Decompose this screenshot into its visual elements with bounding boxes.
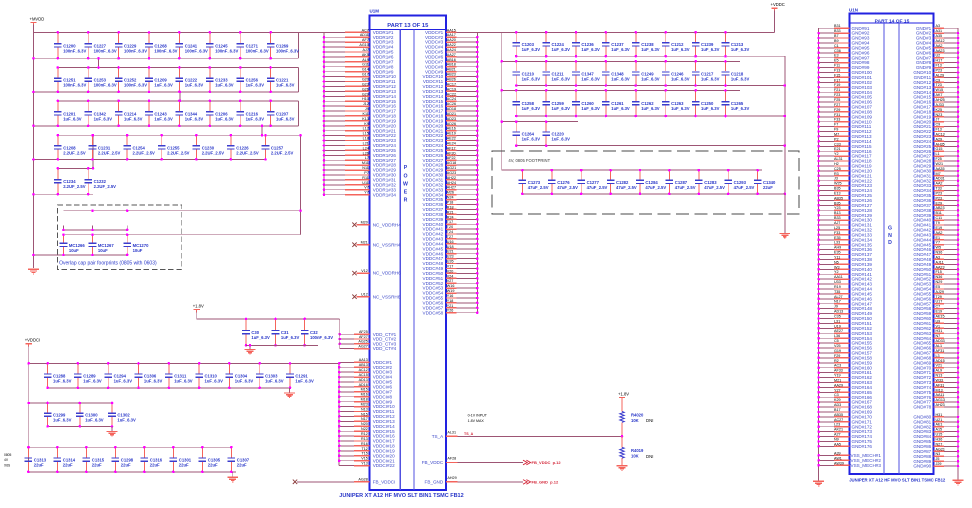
svg-text:U12: U12: [361, 293, 368, 297]
svg-text:C35: C35: [834, 315, 841, 319]
svg-text:U1N: U1N: [849, 8, 858, 13]
svg-text:0-1V INPUT: 0-1V INPUT: [468, 414, 488, 418]
svg-text:N3: N3: [936, 452, 941, 456]
svg-text:N17: N17: [361, 417, 368, 421]
svg-text:L12: L12: [363, 127, 369, 131]
svg-text:F33: F33: [834, 118, 840, 122]
svg-text:1uF_6.3V: 1uF_6.3V: [671, 47, 690, 52]
svg-text:AH9: AH9: [834, 246, 841, 250]
svg-text:AJ11: AJ11: [936, 260, 944, 264]
svg-text:2.2UF_2.5V: 2.2UF_2.5V: [167, 150, 190, 155]
svg-text:G17: G17: [362, 73, 369, 77]
svg-text:Y19: Y19: [834, 374, 841, 378]
svg-text:22uF: 22uF: [237, 463, 247, 468]
svg-text:1uF_6.3V: 1uF_6.3V: [215, 116, 234, 121]
svg-text:47uF_2.5V: 47uF_2.5V: [734, 185, 755, 190]
svg-text:2.2UF_2.5V: 2.2UF_2.5V: [202, 150, 225, 155]
svg-text:FB_VDDCI: FB_VDDCI: [373, 479, 396, 484]
svg-text:1uF_6.3V: 1uF_6.3V: [641, 47, 660, 52]
svg-text:AH27: AH27: [447, 186, 456, 190]
svg-text:100nF_6.3V: 100nF_6.3V: [124, 48, 147, 53]
svg-text:R4020: R4020: [631, 412, 644, 417]
svg-text:P2: P2: [834, 137, 839, 141]
svg-text:T12: T12: [361, 447, 367, 451]
svg-text:E29: E29: [936, 201, 943, 205]
svg-text:AC17: AC17: [447, 82, 456, 86]
svg-text:F23: F23: [834, 93, 840, 97]
svg-text:N11: N11: [362, 166, 369, 170]
svg-text:K13: K13: [362, 117, 369, 121]
svg-text:C36: C36: [834, 49, 841, 53]
svg-text:47uF_2.5V: 47uF_2.5V: [528, 185, 549, 190]
svg-text:2.2UF_2.5V: 2.2UF_2.5V: [94, 184, 117, 189]
svg-text:+1.8V: +1.8V: [618, 391, 629, 396]
svg-text:A29: A29: [936, 137, 943, 141]
svg-text:D: D: [888, 240, 892, 246]
svg-text:AJ7: AJ7: [362, 48, 368, 52]
svg-text:U19: U19: [834, 324, 841, 328]
svg-text:AA27: AA27: [447, 53, 456, 57]
svg-text:AG25: AG25: [358, 340, 367, 344]
svg-text:R3: R3: [834, 172, 839, 176]
svg-text:AG23: AG23: [447, 171, 456, 175]
svg-text:AB26: AB26: [447, 78, 456, 82]
svg-text:C7: C7: [936, 305, 941, 309]
svg-text:AE15: AE15: [936, 315, 945, 319]
svg-text:+VDDC: +VDDC: [771, 2, 785, 7]
svg-text:N22: N22: [361, 427, 368, 431]
svg-text:N15: N15: [361, 412, 368, 416]
svg-text:N7: N7: [936, 334, 941, 338]
svg-text:FB_GND p.12: FB_GND p.12: [532, 480, 559, 485]
svg-text:U16: U16: [447, 240, 454, 244]
svg-text:B35: B35: [834, 201, 841, 205]
svg-text:L33: L33: [834, 241, 840, 245]
svg-text:J7: J7: [936, 118, 940, 122]
svg-text:V20: V20: [447, 269, 454, 273]
svg-text:Y11: Y11: [834, 255, 840, 259]
svg-text:R18: R18: [447, 205, 454, 209]
svg-text:AA24: AA24: [447, 48, 456, 52]
svg-text:F29: F29: [834, 108, 840, 112]
svg-text:47uF_2.5V: 47uF_2.5V: [557, 185, 578, 190]
svg-text:P: P: [404, 165, 408, 171]
svg-text:U21: U21: [447, 250, 454, 254]
svg-text:T15: T15: [361, 452, 367, 456]
svg-text:F21: F21: [834, 88, 840, 92]
svg-text:T24: T24: [447, 230, 453, 234]
svg-text:G11: G11: [362, 63, 369, 67]
svg-text:10uF: 10uF: [133, 248, 143, 253]
svg-text:AG13: AG13: [936, 398, 945, 402]
svg-text:22uF: 22uF: [179, 463, 189, 468]
svg-text:NC_VSSRH4: NC_VSSRH4: [373, 242, 401, 247]
svg-text:VDDCI#22: VDDCI#22: [373, 463, 395, 468]
svg-text:AC7: AC7: [362, 28, 369, 32]
svg-text:W3: W3: [834, 265, 840, 269]
svg-text:1uF_6.3V: 1uF_6.3V: [85, 418, 104, 423]
svg-text:AW39: AW39: [834, 461, 844, 465]
svg-text:B35: B35: [834, 187, 841, 191]
svg-text:P23: P23: [936, 196, 943, 200]
svg-text:AC12: AC12: [359, 368, 368, 372]
svg-text:B31: B31: [834, 24, 841, 28]
svg-text:1uF_6.3V: 1uF_6.3V: [671, 106, 690, 111]
svg-text:K9: K9: [364, 122, 369, 126]
svg-text:100nF_6.3V: 100nF_6.3V: [94, 83, 117, 88]
svg-text:A3: A3: [936, 255, 941, 259]
svg-text:VSS_MECH#3: VSS_MECH#3: [851, 463, 882, 468]
svg-text:1uF_6.3V: 1uF_6.3V: [701, 106, 720, 111]
svg-text:AB23: AB23: [936, 206, 945, 210]
svg-text:M26: M26: [447, 191, 454, 195]
svg-text:B13: B13: [834, 211, 841, 215]
svg-text:C11: C11: [936, 216, 943, 220]
svg-text:U21: U21: [936, 418, 943, 422]
svg-text:1uF_6.3V: 1uF_6.3V: [581, 47, 600, 52]
svg-text:AK5: AK5: [362, 53, 369, 57]
svg-text:T20: T20: [447, 225, 453, 229]
svg-text:2.2UF_2.5V: 2.2UF_2.5V: [63, 184, 86, 189]
svg-text:AB18: AB18: [447, 63, 456, 67]
svg-text:T23: T23: [936, 83, 942, 87]
svg-text:AA17: AA17: [447, 33, 456, 37]
svg-text:AA5: AA5: [834, 442, 841, 446]
svg-text:L26: L26: [363, 151, 369, 155]
svg-text:Y23: Y23: [834, 206, 841, 210]
svg-text:R2: R2: [834, 359, 839, 363]
svg-text:AC13: AC13: [936, 132, 945, 136]
svg-text:1uF_6.3V: 1uF_6.3V: [581, 106, 600, 111]
svg-text:1uF_6.3V: 1uF_6.3V: [522, 106, 541, 111]
svg-text:T33: T33: [936, 187, 942, 191]
svg-text:22uF: 22uF: [208, 463, 218, 468]
svg-text:Y26: Y26: [447, 309, 454, 313]
svg-text:O: O: [403, 173, 407, 179]
svg-text:R12: R12: [361, 432, 368, 436]
svg-text:10uF: 10uF: [69, 248, 79, 253]
svg-text:1uF_6.3V: 1uF_6.3V: [185, 116, 204, 121]
svg-text:T17: T17: [447, 220, 453, 224]
svg-text:1uF_6.3V: 1uF_6.3V: [611, 77, 630, 82]
svg-text:C33: C33: [834, 142, 841, 146]
svg-text:1uF_6.3V: 1uF_6.3V: [265, 379, 284, 384]
svg-text:AD11: AD11: [360, 33, 369, 37]
svg-text:AF31: AF31: [936, 383, 945, 387]
svg-text:V15: V15: [361, 457, 368, 461]
svg-text:1uF_6.3V: 1uF_6.3V: [522, 47, 541, 52]
svg-text:L7: L7: [365, 156, 369, 160]
svg-text:AA13: AA13: [359, 358, 368, 362]
svg-text:100nF_6.3V: 100nF_6.3V: [63, 83, 86, 88]
svg-text:U17: U17: [936, 300, 943, 304]
svg-text:4V, 0805 FOOTPRINT: 4V, 0805 FOOTPRINT: [508, 158, 550, 163]
svg-text:R11: R11: [362, 176, 369, 180]
svg-text:Y27: Y27: [834, 388, 841, 392]
svg-text:1uF_6.3V: 1uF_6.3V: [701, 47, 720, 52]
svg-text:U15: U15: [936, 433, 943, 437]
svg-text:DNI: DNI: [646, 418, 653, 423]
svg-text:H31: H31: [936, 413, 943, 417]
svg-text:AC26: AC26: [447, 102, 456, 106]
svg-text:AA2: AA2: [936, 231, 943, 235]
svg-text:V17: V17: [447, 265, 454, 269]
svg-text:M7: M7: [936, 172, 941, 176]
svg-text:0805: 0805: [4, 453, 12, 457]
svg-text:47uF_2.5V: 47uF_2.5V: [616, 185, 637, 190]
svg-text:Y7: Y7: [364, 191, 369, 195]
svg-text:AF20: AF20: [447, 151, 456, 155]
svg-text:W16: W16: [447, 284, 455, 288]
svg-text:+MVDD: +MVDD: [30, 16, 45, 21]
svg-text:JUNIPER XT A12 HF MVO SLT BIN1: JUNIPER XT A12 HF MVO SLT BIN1 TSMC FB12: [339, 493, 463, 499]
svg-text:F19: F19: [834, 83, 840, 87]
svg-text:10K: 10K: [631, 454, 639, 459]
svg-text:AH29: AH29: [447, 476, 456, 480]
svg-text:TS_A: TS_A: [432, 434, 444, 439]
svg-text:Y2: Y2: [834, 152, 839, 156]
svg-text:AG10: AG10: [359, 43, 368, 47]
svg-text:U1M: U1M: [370, 9, 380, 14]
svg-text:U9: U9: [936, 319, 941, 323]
svg-text:N36: N36: [936, 275, 943, 279]
svg-text:W15: W15: [936, 88, 944, 92]
svg-text:1uF_6.3V: 1uF_6.3V: [522, 137, 541, 142]
svg-text:M18: M18: [361, 398, 368, 402]
svg-text:1uF_6.3V: 1uF_6.3V: [154, 83, 173, 88]
svg-text:AE24: AE24: [447, 142, 456, 146]
svg-text:N27: N27: [936, 442, 943, 446]
svg-text:AL29: AL29: [936, 73, 945, 77]
svg-text:V24: V24: [447, 274, 454, 278]
svg-text:AG21: AG21: [447, 166, 456, 170]
svg-text:1uF_6.3V: 1uF_6.3V: [641, 106, 660, 111]
svg-text:B7: B7: [834, 34, 839, 38]
svg-text:1uF_6.3V: 1uF_6.3V: [611, 47, 630, 52]
svg-text:H36: H36: [936, 438, 943, 442]
svg-text:E21: E21: [834, 147, 841, 151]
svg-text:1uF_6.3V: 1uF_6.3V: [251, 335, 270, 340]
svg-text:10K: 10K: [631, 418, 639, 423]
svg-text:F13: F13: [834, 69, 840, 73]
svg-text:V21: V21: [936, 364, 943, 368]
svg-text:A15: A15: [936, 428, 943, 432]
svg-text:AF27: AF27: [359, 335, 368, 339]
svg-text:1uF_6.3V: 1uF_6.3V: [235, 379, 254, 384]
svg-text:AK7: AK7: [936, 93, 943, 97]
svg-text:AE19: AE19: [447, 132, 456, 136]
svg-text:C1: C1: [834, 44, 839, 48]
svg-text:AA2: AA2: [936, 182, 943, 186]
svg-text:AB35: AB35: [834, 413, 843, 417]
svg-text:P7: P7: [364, 171, 369, 175]
svg-text:J9: J9: [834, 305, 838, 309]
svg-text:N20: N20: [361, 422, 368, 426]
svg-text:AF22: AF22: [447, 156, 456, 160]
svg-text:R: R: [404, 198, 408, 204]
svg-text:1uF_6.3V: 1uF_6.3V: [53, 379, 72, 384]
svg-text:AD3: AD3: [834, 403, 841, 407]
svg-text:AA29: AA29: [834, 383, 843, 387]
svg-text:1uF_6.3V: 1uF_6.3V: [114, 379, 133, 384]
svg-text:T27: T27: [447, 235, 453, 239]
svg-text:F33: F33: [834, 231, 840, 235]
svg-text:Y16: Y16: [447, 294, 454, 298]
svg-text:J9: J9: [365, 107, 369, 111]
svg-text:Y21: Y21: [447, 304, 454, 308]
svg-text:PART 13 OF 15: PART 13 OF 15: [387, 23, 429, 29]
svg-text:1uF_6.3V: 1uF_6.3V: [205, 379, 224, 384]
svg-text:M20: M20: [361, 221, 368, 225]
svg-text:R24: R24: [447, 215, 454, 219]
svg-text:G20: G20: [362, 78, 369, 82]
svg-text:AG21: AG21: [936, 447, 945, 451]
svg-text:P23: P23: [936, 69, 943, 73]
svg-text:AA2: AA2: [936, 44, 943, 48]
svg-text:F7: F7: [834, 123, 838, 127]
svg-text:AL1: AL1: [936, 344, 943, 348]
svg-text:B11: B11: [936, 211, 942, 215]
svg-text:V27: V27: [447, 279, 454, 283]
svg-text:F9: F9: [834, 128, 838, 132]
svg-text:+1.8V: +1.8V: [193, 303, 204, 308]
svg-text:Overlap cap pair foorprints (0: Overlap cap pair foorprints (0805 with 0…: [59, 261, 157, 267]
svg-text:1uF_6.3V: 1uF_6.3V: [552, 77, 571, 82]
svg-text:R4019: R4019: [631, 448, 644, 453]
svg-text:G14: G14: [362, 68, 369, 72]
svg-text:47uF_2.5V: 47uF_2.5V: [675, 185, 696, 190]
svg-text:U2: U2: [936, 54, 941, 58]
svg-text:G29: G29: [362, 92, 369, 96]
svg-text:AD23: AD23: [447, 117, 456, 121]
svg-text:1uF_6.3V: 1uF_6.3V: [731, 106, 750, 111]
svg-text:AD26: AD26: [447, 122, 456, 126]
svg-text:W21: W21: [936, 162, 944, 166]
svg-text:E1: E1: [936, 236, 941, 240]
svg-text:C5: C5: [834, 339, 839, 343]
svg-text:1uF_6.3V: 1uF_6.3V: [144, 379, 163, 384]
svg-text:1uF_6.3V: 1uF_6.3V: [174, 379, 193, 384]
svg-text:L21: L21: [363, 142, 369, 146]
svg-text:AB16: AB16: [447, 58, 456, 62]
svg-text:AF7: AF7: [362, 38, 369, 42]
svg-text:GND#78: GND#78: [913, 405, 931, 410]
svg-text:AA23: AA23: [936, 49, 945, 53]
svg-text:100nF_6.3V: 100nF_6.3V: [124, 83, 147, 88]
svg-text:AH25: AH25: [936, 98, 945, 102]
svg-text:U33: U33: [834, 280, 841, 284]
svg-text:1uF_6.3V: 1uF_6.3V: [281, 335, 300, 340]
svg-text:100nF_6.3V: 100nF_6.3V: [246, 48, 269, 53]
svg-text:F13: F13: [936, 128, 942, 132]
svg-text:F25: F25: [834, 98, 840, 102]
svg-text:TS_A: TS_A: [464, 432, 474, 436]
svg-text:47uF_2.5V: 47uF_2.5V: [704, 185, 725, 190]
svg-text:G: G: [888, 226, 892, 232]
svg-text:C9: C9: [936, 78, 941, 82]
svg-text:W33: W33: [936, 378, 944, 382]
svg-text:L18: L18: [363, 137, 369, 141]
svg-text:Y18: Y18: [447, 299, 454, 303]
svg-text:AD16: AD16: [359, 383, 368, 387]
svg-text:1uF_6.3V: 1uF_6.3V: [552, 137, 571, 142]
svg-text:VDD_CT#4: VDD_CT#4: [373, 346, 397, 351]
svg-text:AA11: AA11: [936, 393, 945, 397]
svg-text:B9: B9: [834, 39, 839, 43]
svg-text:1uF_6.3V: 1uF_6.3V: [185, 83, 204, 88]
svg-text:M21: M21: [834, 378, 841, 382]
svg-text:1uF_6.3V: 1uF_6.3V: [671, 77, 690, 82]
svg-text:JUNIPER XT A12 HF MVO SLT BIN1: JUNIPER XT A12 HF MVO SLT BIN1 TSMC FB12: [849, 478, 946, 483]
svg-text:1uF_6.3V: 1uF_6.3V: [552, 47, 571, 52]
svg-text:2.2UF_2.5V: 2.2UF_2.5V: [236, 150, 259, 155]
svg-text:AB35: AB35: [834, 196, 843, 200]
svg-text:10uF: 10uF: [98, 248, 108, 253]
svg-text:AF31: AF31: [936, 349, 945, 353]
svg-text:1uF_6.3V: 1uF_6.3V: [611, 106, 630, 111]
svg-text:A27: A27: [834, 433, 841, 437]
svg-text:L25: L25: [834, 226, 840, 230]
svg-text:A35: A35: [936, 34, 943, 38]
svg-text:P18: P18: [447, 201, 454, 205]
svg-text:R16: R16: [361, 442, 368, 446]
svg-text:M13: M13: [936, 388, 943, 392]
svg-text:AC15: AC15: [359, 373, 368, 377]
svg-text:1.8V MAX: 1.8V MAX: [468, 419, 485, 423]
svg-text:47uF_2.5V: 47uF_2.5V: [645, 185, 666, 190]
svg-text:L15: L15: [363, 132, 369, 136]
svg-text:F15: F15: [936, 270, 942, 274]
svg-text:22uF: 22uF: [763, 185, 773, 190]
svg-text:AC22: AC22: [447, 92, 456, 96]
svg-text:AB23: AB23: [447, 73, 456, 77]
svg-text:J5: J5: [936, 457, 940, 461]
svg-text:L23: L23: [834, 423, 840, 427]
svg-text:AH24: AH24: [447, 181, 456, 185]
svg-text:100nF_6.3V: 100nF_6.3V: [185, 48, 208, 53]
svg-text:U18: U18: [447, 245, 454, 249]
svg-text:AH35: AH35: [936, 142, 945, 146]
svg-text:1uF_6.3V: 1uF_6.3V: [522, 77, 541, 82]
svg-text:AH22: AH22: [447, 176, 456, 180]
svg-text:C25: C25: [834, 167, 841, 171]
svg-text:1uF_6.3V: 1uF_6.3V: [83, 379, 102, 384]
svg-text:F13: F13: [936, 64, 942, 68]
svg-text:K11: K11: [363, 112, 369, 116]
svg-text:U26: U26: [447, 260, 454, 264]
svg-text:E: E: [404, 189, 408, 195]
svg-text:G23: G23: [362, 82, 369, 86]
svg-text:G19: G19: [834, 349, 841, 353]
svg-text:AC19: AC19: [447, 87, 456, 91]
svg-text:C3: C3: [834, 393, 839, 397]
svg-text:100nF_6.3V: 100nF_6.3V: [276, 48, 299, 53]
svg-text:100nF_6.3V: 100nF_6.3V: [154, 48, 177, 53]
svg-text:100nF_6.3V: 100nF_6.3V: [215, 48, 238, 53]
svg-text:AD15: AD15: [936, 359, 945, 363]
svg-text:AL31: AL31: [834, 157, 843, 161]
svg-text:100nF_6.3V: 100nF_6.3V: [94, 48, 117, 53]
svg-text:E35: E35: [834, 236, 841, 240]
svg-text:AA23: AA23: [936, 265, 945, 269]
svg-text:AA22: AA22: [447, 43, 456, 47]
svg-text:AL27: AL27: [834, 295, 843, 299]
svg-text:22uF: 22uF: [92, 463, 102, 468]
svg-text:1uF_6.3V: 1uF_6.3V: [246, 116, 265, 121]
svg-text:1uF_6.3V: 1uF_6.3V: [246, 83, 265, 88]
svg-text:N17: N17: [834, 300, 841, 304]
svg-text:1uF_6.3V: 1uF_6.3V: [701, 77, 720, 82]
